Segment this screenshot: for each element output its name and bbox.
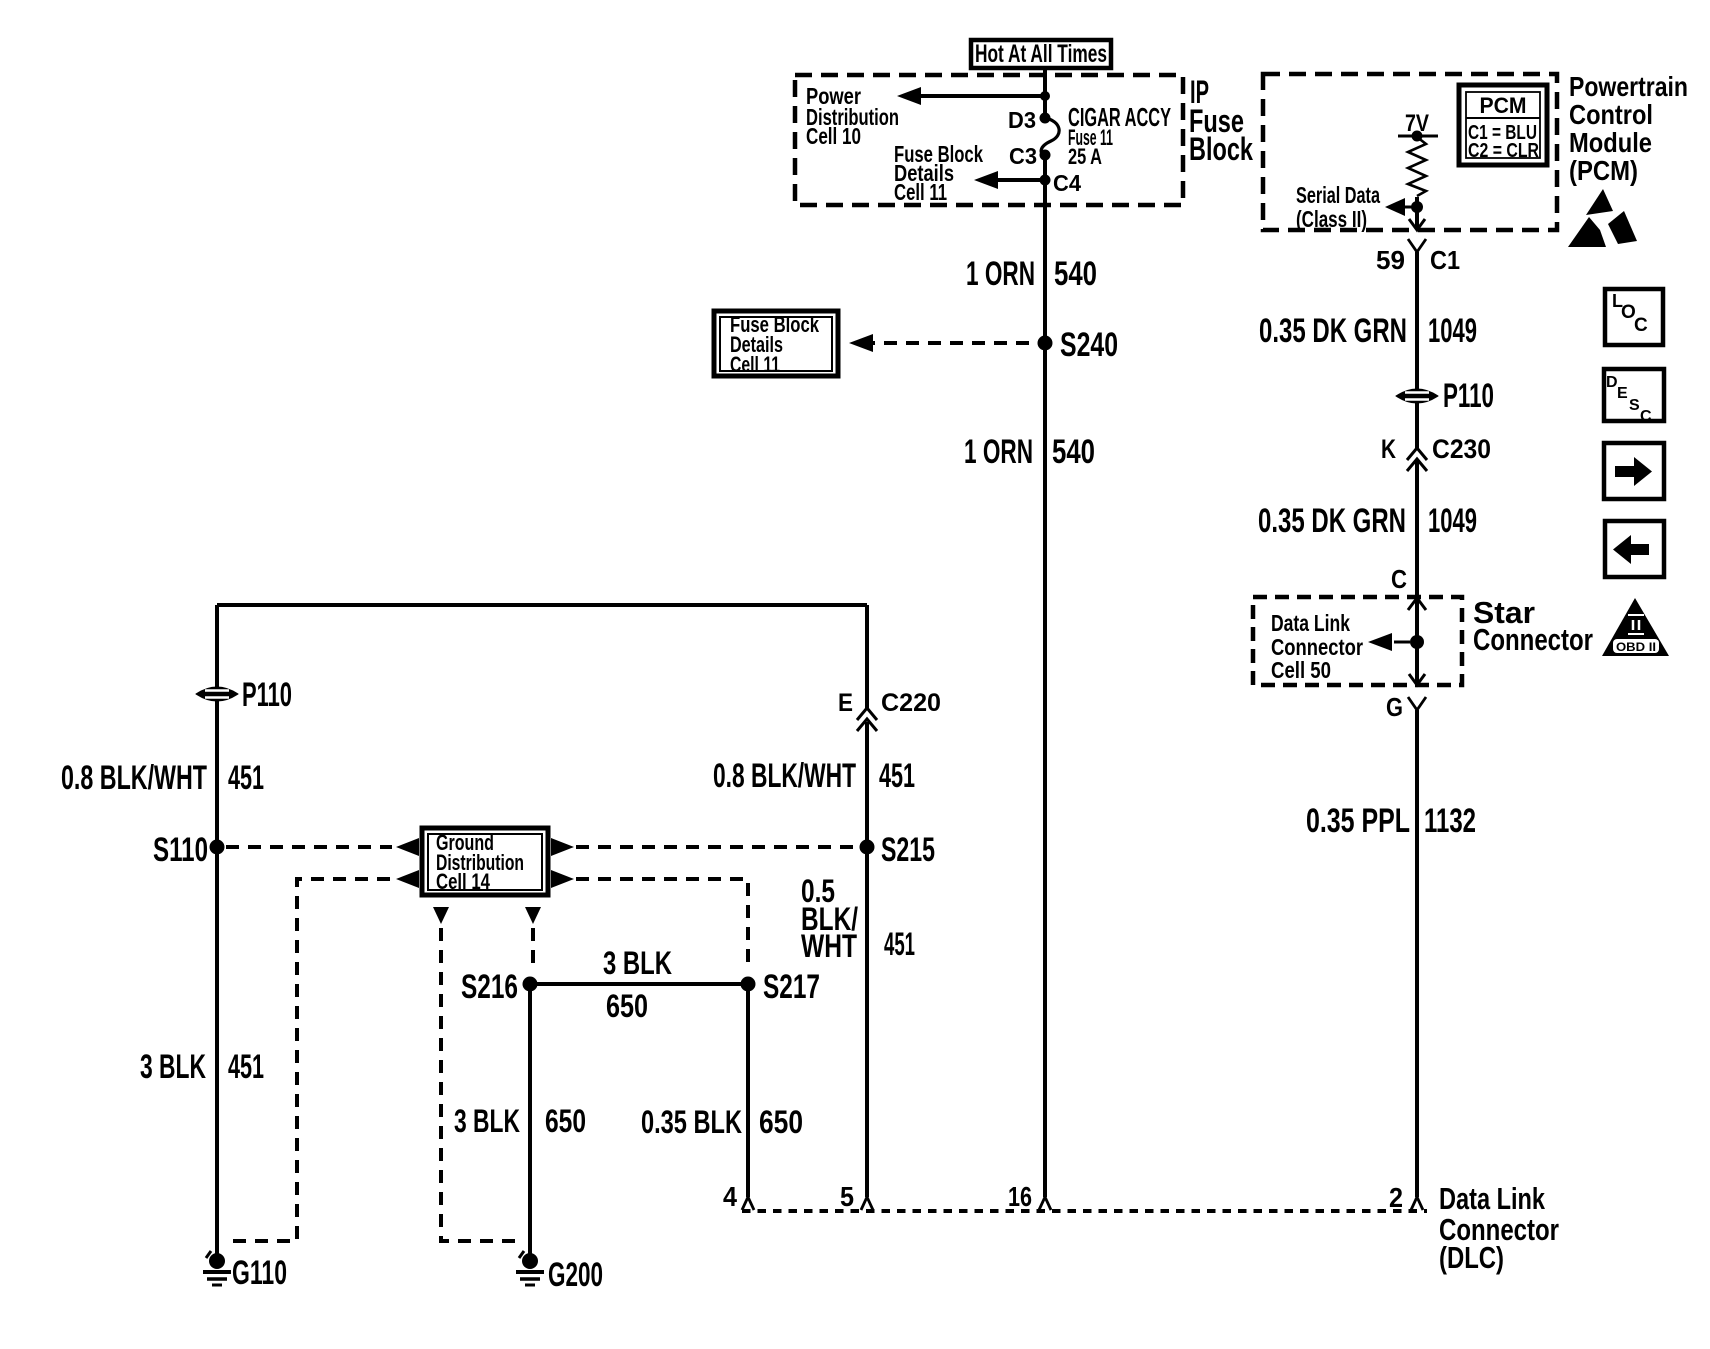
svg-text:WHT: WHT [801, 928, 857, 964]
svg-text:Cell 11: Cell 11 [730, 352, 780, 377]
svg-text:0.35 BLK: 0.35 BLK [641, 1104, 742, 1140]
svg-text:1132: 1132 [1424, 802, 1476, 840]
svg-text:E: E [838, 689, 853, 717]
svg-text:(DLC): (DLC) [1439, 1240, 1504, 1275]
svg-text:0.35 PPL: 0.35 PPL [1306, 802, 1410, 840]
svg-text:Data Link: Data Link [1271, 610, 1350, 636]
svg-text:D3: D3 [1008, 107, 1036, 133]
svg-text:650: 650 [545, 1103, 586, 1139]
svg-text:4: 4 [723, 1181, 737, 1212]
svg-text:Hot At All Times: Hot At All Times [975, 40, 1107, 68]
svg-text:0.35 DK GRN: 0.35 DK GRN [1259, 312, 1407, 350]
svg-text:451: 451 [879, 757, 915, 795]
svg-text:16: 16 [1008, 1181, 1032, 1212]
svg-text:C: C [1391, 564, 1407, 594]
svg-text:G110: G110 [232, 1254, 287, 1292]
svg-text:Control: Control [1569, 99, 1653, 130]
svg-text:Powertrain: Powertrain [1569, 71, 1688, 102]
svg-text:S217: S217 [763, 968, 820, 1006]
svg-text:C: C [1640, 408, 1652, 425]
svg-text:G: G [1386, 692, 1403, 722]
svg-text:451: 451 [884, 926, 915, 962]
svg-text:C4: C4 [1053, 170, 1081, 196]
svg-text:K: K [1381, 434, 1396, 464]
svg-text:Cell 50: Cell 50 [1271, 657, 1331, 683]
svg-text:C220: C220 [881, 689, 941, 717]
svg-text:S240: S240 [1060, 326, 1118, 364]
svg-text:Cell 10: Cell 10 [806, 123, 861, 149]
svg-text:P110: P110 [1443, 377, 1494, 415]
svg-text:650: 650 [606, 988, 648, 1024]
svg-text:0.8 BLK/WHT: 0.8 BLK/WHT [61, 759, 207, 797]
svg-text:OBD II: OBD II [1616, 640, 1656, 654]
svg-text:Data Link: Data Link [1439, 1181, 1546, 1216]
svg-text:(PCM): (PCM) [1569, 155, 1638, 186]
svg-text:(Class II): (Class II) [1296, 206, 1367, 232]
svg-text:5: 5 [840, 1181, 854, 1212]
svg-text:451: 451 [228, 1048, 264, 1086]
svg-text:1 ORN: 1 ORN [964, 433, 1033, 471]
svg-text:1 ORN: 1 ORN [966, 255, 1035, 293]
svg-text:S: S [1629, 397, 1640, 414]
svg-text:C2 = CLR: C2 = CLR [1468, 140, 1539, 162]
svg-text:G200: G200 [548, 1256, 603, 1294]
svg-text:0.8 BLK/WHT: 0.8 BLK/WHT [713, 757, 856, 795]
svg-text:C1: C1 [1430, 245, 1460, 275]
svg-text:2: 2 [1389, 1182, 1403, 1213]
svg-text:C230: C230 [1432, 434, 1491, 464]
svg-text:Serial Data: Serial Data [1296, 182, 1380, 208]
svg-text:S110: S110 [153, 831, 208, 869]
svg-text:650: 650 [759, 1104, 803, 1140]
svg-text:1049: 1049 [1428, 312, 1477, 350]
svg-text:59: 59 [1376, 245, 1405, 275]
svg-text:540: 540 [1052, 433, 1095, 471]
svg-text:Module: Module [1569, 127, 1652, 158]
svg-text:25 A: 25 A [1068, 144, 1102, 169]
svg-text:Cell 14: Cell 14 [436, 869, 491, 894]
svg-text:C: C [1634, 315, 1648, 336]
svg-text:7V: 7V [1405, 110, 1429, 137]
svg-text:451: 451 [228, 759, 264, 797]
svg-text:3 BLK: 3 BLK [454, 1103, 520, 1139]
svg-text:540: 540 [1054, 255, 1097, 293]
svg-text:D: D [1606, 374, 1618, 391]
svg-text:E: E [1617, 385, 1628, 402]
svg-text:Connector: Connector [1473, 622, 1593, 657]
svg-text:S216: S216 [461, 968, 518, 1006]
svg-text:PCM: PCM [1480, 93, 1527, 118]
svg-text:Block: Block [1189, 131, 1253, 167]
svg-text:0.35 DK GRN: 0.35 DK GRN [1258, 502, 1406, 540]
svg-text:C3: C3 [1009, 143, 1037, 169]
svg-text:3 BLK: 3 BLK [603, 945, 672, 981]
svg-text:3 BLK: 3 BLK [140, 1048, 206, 1086]
svg-text:Cell 11: Cell 11 [894, 179, 947, 205]
svg-text:S215: S215 [881, 831, 935, 869]
svg-text:P110: P110 [242, 676, 292, 714]
svg-text:1049: 1049 [1428, 502, 1477, 540]
